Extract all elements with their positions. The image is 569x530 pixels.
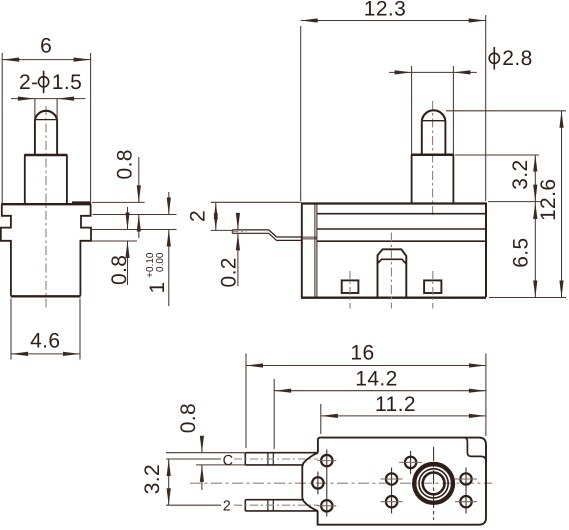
body bottom thick [11, 295, 81, 297]
svg-text:2-: 2- [19, 71, 38, 94]
inter-prong edge with fillets [302, 453, 318, 511]
pin dome left view [35, 111, 57, 120]
label C [221, 451, 234, 467]
hole c2 (edge) [312, 477, 323, 488]
plate outline [318, 438, 486, 525]
svg-text:3.2: 3.2 [509, 159, 532, 189]
window right [424, 280, 441, 293]
svg-text:2: 2 [187, 210, 210, 222]
c7 c8 horizontal crosses [455, 479, 477, 502]
prong 2 ticks [268, 500, 273, 511]
window left [342, 280, 359, 293]
body top thick right view [301, 202, 487, 204]
c1 horizontal cross [317, 460, 336, 462]
prong 2 centerline [234, 504, 318, 506]
dimension 4.6 [11, 299, 80, 360]
dimension 16 [246, 354, 486, 449]
dimension 2 (terminal height) [211, 201, 301, 203]
centerline left view [45, 106, 47, 310]
window left centerline [349, 271, 351, 309]
svg-text:14.2: 14.2 [355, 368, 397, 391]
window right centerline [432, 271, 434, 309]
svg-text:2.8: 2.8 [502, 47, 532, 70]
dimension 11.2 [320, 404, 322, 434]
terminal centerline stub [233, 231, 247, 233]
body bottom thick right view [301, 297, 486, 299]
svg-text:2: 2 [223, 499, 231, 515]
pin cylinder sides [35, 120, 57, 155]
c7/c8 vertical centerline [465, 468, 467, 514]
plunger centerline [390, 233, 392, 309]
svg-text:0.8: 0.8 [114, 149, 137, 179]
svg-text:0.00: 0.00 [155, 252, 166, 272]
svg-text:1.5: 1.5 [52, 71, 82, 94]
dimension 0.8 top [92, 201, 145, 203]
c4 c5 horizontal crosses [381, 479, 403, 502]
collar sides [25, 155, 67, 204]
lip top right [72, 201, 90, 203]
prong C centerline [234, 458, 318, 460]
plunger inner line [378, 259, 407, 264]
left strip inner double lines [315, 204, 317, 298]
dimension 6.5 [534, 202, 536, 298]
prong 2 (bottom) [245, 500, 317, 511]
dimension 6 [2, 53, 90, 203]
c1/c3 vertical centerline [326, 450, 328, 517]
dimension 12.6 [446, 111, 566, 298]
holes c7 c8 [460, 473, 471, 484]
pin base top thick [411, 154, 454, 157]
c4/c5 vertical centerline [391, 468, 393, 514]
big hole vertical centerline [433, 447, 435, 520]
svg-text:6.5: 6.5 [510, 237, 533, 267]
prong C ticks [268, 453, 273, 465]
dimension 0.8 bottom [92, 240, 138, 242]
dimension 0.2 (terminal thickness) [237, 213, 239, 286]
label 2 [221, 497, 233, 513]
dimension 3.2 right view [455, 154, 539, 156]
body right edge [485, 204, 487, 298]
c3 horizontal cross [317, 505, 336, 507]
body band lines [317, 213, 486, 215]
holes c4 c5 pair [386, 473, 397, 484]
plunger [378, 249, 407, 297]
terminal inside body gray [302, 236, 317, 239]
pin cylinder right view [422, 121, 446, 154]
body right profile [80, 204, 91, 296]
hole c1 [321, 455, 332, 466]
svg-text:12.6: 12.6 [537, 179, 560, 221]
dimension 12.3 [301, 15, 486, 201]
svg-text:1: 1 [146, 281, 169, 293]
svg-text:3.2: 3.2 [141, 464, 164, 494]
main axis centerline [190, 482, 492, 484]
svg-text:0.8: 0.8 [177, 403, 200, 433]
body left profile [1, 204, 11, 296]
c2 vertical cross [317, 472, 319, 495]
dimension 3.2 bottom view [166, 459, 221, 505]
terminal [232, 230, 301, 241]
svg-text:6: 6 [40, 35, 52, 58]
hole c6 [405, 457, 416, 468]
svg-text:16: 16 [350, 341, 374, 364]
svg-text:11.2: 11.2 [375, 393, 416, 416]
body top thick [1, 203, 91, 205]
pin dome right view [422, 110, 446, 120]
pin centerline right view [432, 101, 434, 216]
plate corner notch [465, 438, 486, 461]
svg-text:C: C [223, 453, 233, 469]
dimension 1 +0.10/0.00 [92, 229, 177, 231]
svg-text:4.6: 4.6 [30, 330, 60, 353]
prong C (top) [245, 453, 318, 465]
left strip outer edge [301, 204, 303, 298]
big hole [414, 464, 453, 503]
hole c3 [321, 500, 332, 511]
pin base sides [412, 155, 454, 203]
pin dome chord [35, 119, 57, 121]
c6 crosses [410, 451, 412, 474]
collar top thick [24, 154, 67, 157]
dimension phi2.8 [412, 66, 454, 154]
svg-text:12.3: 12.3 [364, 0, 406, 21]
svg-text:0.8: 0.8 [108, 255, 131, 285]
dimension 0.8 bottom view [166, 453, 247, 465]
dimension 14.2 [273, 379, 275, 449]
pin dome chord right view [422, 120, 446, 122]
svg-text:0.2: 0.2 [218, 257, 241, 287]
